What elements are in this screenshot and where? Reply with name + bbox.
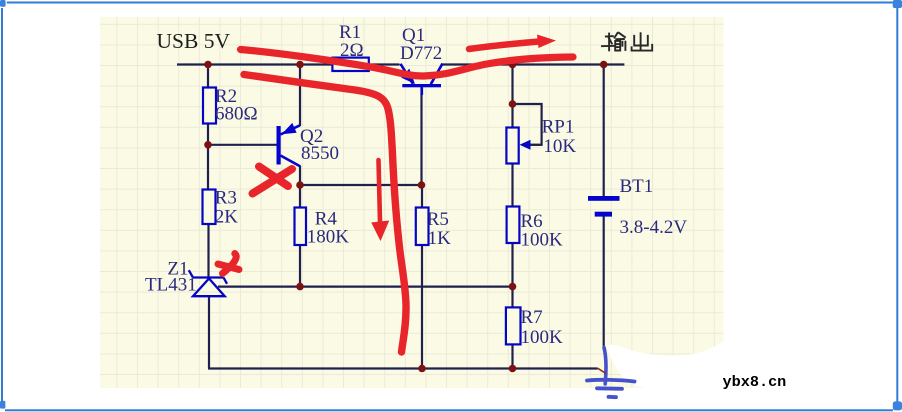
junction mid node at Q1 base <box>418 181 426 189</box>
selection frame top line <box>7 2 893 4</box>
svg-text:RP1: RP1 <box>542 117 575 138</box>
wire Q2 collector drop <box>299 166 301 186</box>
junction R2/R3 base node <box>204 141 212 149</box>
junction top rail at Q2 emitter <box>296 61 304 69</box>
label BT1 designator <box>620 176 654 197</box>
label BT1 value 3.8-4.2V <box>620 217 688 238</box>
wire bottom rail <box>208 367 598 369</box>
resistor R3 <box>203 190 216 225</box>
annotation red X at Z1 <box>218 254 239 274</box>
svg-text:680Ω: 680Ω <box>215 104 258 125</box>
label R1 value 2 ohm <box>340 40 364 61</box>
svg-text:2K: 2K <box>215 207 239 228</box>
watermark ybx8.cn <box>723 373 787 391</box>
annotation red arrow to output <box>469 35 556 50</box>
wire RP1 bottom to R6 top <box>511 163 513 207</box>
wire R7 top <box>511 287 513 308</box>
wire RP1 wiper loop <box>513 104 542 145</box>
label R3 designator <box>215 188 237 209</box>
wire R7 bottom <box>511 344 513 369</box>
ground symbol (hand-drawn) <box>587 348 635 398</box>
wire feedback node <box>218 286 513 288</box>
wire Q2 base <box>208 144 277 146</box>
resistor R4 <box>295 208 307 246</box>
svg-text:100K: 100K <box>521 230 564 251</box>
label Z1 value TL431 <box>145 274 197 295</box>
label Q2 value 8550 <box>301 143 339 164</box>
svg-text:D772: D772 <box>400 43 442 64</box>
label R5 value 1K <box>428 228 452 249</box>
label Q2 designator <box>300 126 323 147</box>
wire battery column top <box>603 65 605 197</box>
wire top rail left <box>177 63 400 65</box>
node label output 输出 <box>601 32 652 51</box>
annotation red down arrow <box>371 160 389 241</box>
junction top rail at battery <box>600 61 608 69</box>
label R4 designator <box>315 208 338 229</box>
wire R4 top <box>299 185 301 208</box>
shunt reference Z1 <box>189 270 227 296</box>
svg-text:10K: 10K <box>543 136 576 157</box>
node label USB 5V <box>157 29 231 53</box>
wire R3 bottom to Z1 cathode <box>207 223 209 278</box>
schematic cream background <box>100 17 724 388</box>
svg-text:180K: 180K <box>307 227 350 248</box>
annotation red stroke curving down <box>244 75 406 353</box>
junction feedback at R6/R7 <box>509 283 517 291</box>
resistor R1 <box>332 58 368 71</box>
selection frame left line <box>1 8 3 401</box>
selection handle bottom-right <box>893 401 902 410</box>
wire battery to ground <box>603 216 605 346</box>
svg-text:BT1: BT1 <box>620 176 654 197</box>
junction top rail at R2 <box>204 61 212 69</box>
svg-text:R7: R7 <box>521 307 543 328</box>
wire R2 bottom to R3 top <box>207 123 209 190</box>
svg-text:100K: 100K <box>521 327 564 348</box>
label RP1 designator <box>542 117 575 138</box>
label R4 value 180K <box>307 227 350 248</box>
wire Q1 base drop <box>420 87 422 185</box>
svg-text:3.8-4.2V: 3.8-4.2V <box>620 217 688 238</box>
label Q1 designator <box>402 25 425 46</box>
svg-text:TL431: TL431 <box>145 274 197 295</box>
label R7 value 100K <box>521 327 564 348</box>
svg-text:ybx8.cn: ybx8.cn <box>723 373 787 391</box>
svg-text:1K: 1K <box>428 228 452 249</box>
potentiometer RP1 <box>506 128 541 164</box>
selection frame right line <box>896 8 898 402</box>
junction bottom rail at R7 <box>509 365 517 373</box>
svg-text:USB 5V: USB 5V <box>157 29 231 53</box>
wire R4 bottom <box>299 245 301 287</box>
selection handle top-right <box>893 0 902 8</box>
wire mid node Q2C to Q1B <box>300 184 422 186</box>
label R1 designator <box>339 22 361 43</box>
annotation red stroke upper <box>241 50 574 77</box>
resistor R6 <box>507 207 520 244</box>
transistor Q2 <box>277 123 301 166</box>
annotation red X at Q2 <box>253 167 293 194</box>
label R2 designator <box>215 86 237 107</box>
wire R5 bottom to bottom rail <box>421 245 423 369</box>
label R3 value 2K <box>215 207 239 228</box>
label R6 value 100K <box>521 230 564 251</box>
label R2 value 680 ohm <box>215 104 258 125</box>
white erased blob near ground <box>607 341 724 389</box>
wire Z1 anode drop <box>208 296 210 369</box>
wire RP1 column top <box>511 65 513 129</box>
label RP1 value 10K <box>543 136 576 157</box>
junction top rail at RP1 <box>509 61 517 69</box>
wire top rail right <box>443 63 625 65</box>
wire stub rail to ground (red-brown) <box>598 368 607 373</box>
junction RP1 wiper top <box>509 100 517 108</box>
wire R6 bottom <box>511 243 513 287</box>
resistor R7 <box>506 307 521 344</box>
transistor Q1 <box>401 64 443 96</box>
label Q1 value D772 <box>400 43 442 64</box>
junction bottom rail at R5 <box>418 365 426 373</box>
wire R2 column top <box>207 65 209 89</box>
junction feedback at R4 <box>296 283 304 291</box>
label R5 designator <box>427 209 449 230</box>
selection handle top-left <box>0 0 6 7</box>
label Z1 designator <box>167 259 188 280</box>
selection handle bottom-left <box>0 401 5 409</box>
svg-text:2Ω: 2Ω <box>340 40 364 61</box>
svg-text:R3: R3 <box>215 188 237 209</box>
resistor R5 <box>416 208 429 246</box>
resistor R2 <box>203 88 216 124</box>
junction mid node at Q2 collector <box>296 181 304 189</box>
label R6 designator <box>521 211 543 232</box>
wire Q2 emitter riser <box>299 65 301 127</box>
battery BT1 <box>588 196 620 217</box>
label R7 designator <box>521 307 543 328</box>
selection frame bottom line <box>5 409 893 411</box>
wire R5 top <box>421 185 423 208</box>
svg-text:8550: 8550 <box>301 143 339 164</box>
